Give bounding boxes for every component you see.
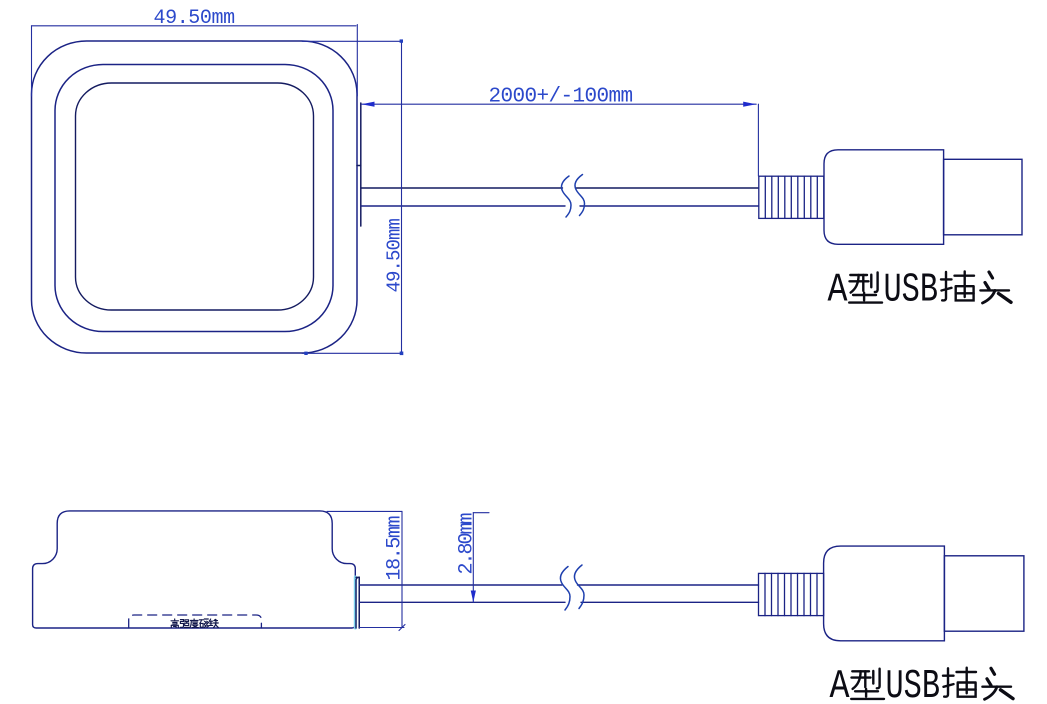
- magnet box (dashed): [129, 615, 262, 628]
- cable lower line (top view): [361, 205, 759, 207]
- arrowhead 2.80mm: [471, 591, 476, 603]
- strain relief (side view): [759, 573, 824, 615]
- strain relief (top view): [759, 176, 824, 218]
- svg-text:A: A: [828, 268, 848, 314]
- cable entry tab (top view): [357, 103, 361, 226]
- cable upper line (side view): [359, 584, 758, 586]
- hanzi 度: [190, 619, 198, 628]
- svg-text:2000+/-100mm: 2000+/-100mm: [489, 86, 633, 109]
- endpoint dots 49.50mm vertical: [304, 39, 403, 355]
- arrowhead right 2000mm: [743, 102, 756, 107]
- connector tab (side view): [354, 577, 357, 628]
- svg-text:2.80mm: 2.80mm: [456, 513, 479, 574]
- USB plug moulded body (top view): [824, 150, 944, 245]
- dimension 49.50mm horizontal (top): [32, 25, 358, 97]
- hanzi 插: [941, 271, 974, 300]
- cable break symbol (top view): [561, 175, 584, 218]
- cable break symbol (side view): [560, 565, 584, 610]
- middle housing contour (top view): [55, 65, 333, 332]
- hanzi 铁: [209, 619, 218, 628]
- dimension 49.50mm vertical (right of top view): [302, 41, 402, 353]
- inner housing contour (top view): [76, 83, 314, 310]
- dimension 2000+/-100mm: [362, 104, 759, 176]
- hanzi 高: [171, 619, 179, 628]
- USB metal shell (top view): [944, 159, 1022, 235]
- USB metal shell (side view): [944, 556, 1024, 631]
- svg-text:49.50mm: 49.50mm: [384, 218, 406, 292]
- device side profile: [33, 511, 356, 628]
- label A型USB插头 (top): [828, 268, 1012, 314]
- hanzi 头: [980, 272, 1011, 303]
- outer housing outline (top view): [32, 41, 358, 353]
- svg-text:18.5mm: 18.5mm: [384, 516, 407, 580]
- svg-text:49.50mm: 49.50mm: [154, 7, 235, 30]
- cable lower line (side view): [359, 601, 758, 603]
- magnet label 高强度磁铁: [171, 619, 218, 628]
- USB plug moulded body (side view): [824, 546, 945, 641]
- svg-text:USB: USB: [884, 268, 939, 314]
- hanzi 型: [849, 272, 882, 302]
- arrowhead left 2000mm: [362, 102, 375, 107]
- label A型USB插头 (bottom): [830, 664, 1014, 704]
- dimension 18.5mm: [327, 511, 405, 630]
- dimension 2.80mm: [473, 513, 489, 603]
- hanzi 磁: [199, 619, 208, 627]
- hanzi 强: [180, 620, 189, 628]
- cable upper line (top view): [361, 187, 759, 189]
